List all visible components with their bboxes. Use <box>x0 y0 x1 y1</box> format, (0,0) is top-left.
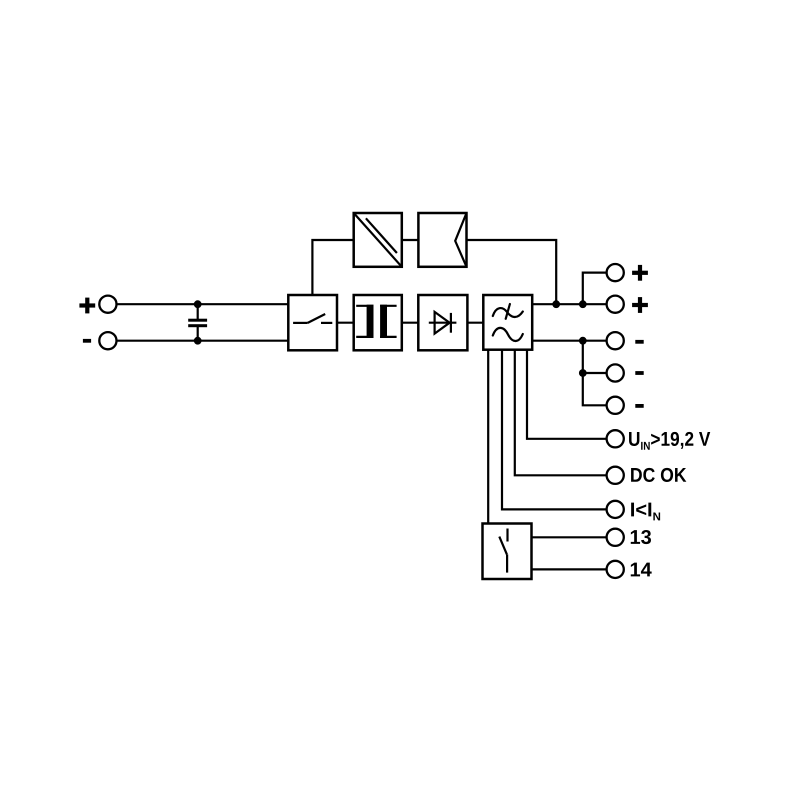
wire diode to regulator <box>467 322 483 324</box>
label + input <box>79 298 95 314</box>
label DC OK <box>631 468 686 482</box>
signal terminal 13 <box>607 529 624 546</box>
wire feed from box2 down to output + <box>467 240 557 304</box>
junction dot input + <box>194 300 202 308</box>
U2 chevron <box>455 214 466 267</box>
label +2 output <box>632 297 648 313</box>
wire input + <box>117 303 289 305</box>
wire relay contact 13 <box>532 536 607 538</box>
input switch box S1 <box>288 295 337 350</box>
wire input - <box>117 340 289 342</box>
transformer box T1 <box>354 295 402 350</box>
capacitor C1 <box>188 319 207 328</box>
label 13 <box>631 530 651 544</box>
U3 top sine with slash <box>493 304 523 319</box>
junction dot feed / output + <box>552 300 560 308</box>
label -2 output <box>635 371 643 375</box>
wire output -2 stub <box>583 372 607 374</box>
wire capacitor branch bottom <box>197 327 199 341</box>
signal terminal UIN <box>607 430 624 447</box>
label -3 output <box>635 404 643 408</box>
junction dot output -2 <box>579 369 587 377</box>
input terminal - <box>99 332 116 349</box>
limiter box U2 (chevron symbol) <box>418 213 466 267</box>
wire DC OK signal drop <box>515 350 607 476</box>
label UIN>19,2 V <box>629 432 710 450</box>
relay box K1 <box>483 524 532 580</box>
junction dot output + branch <box>579 300 587 308</box>
wire switch to transformer <box>337 322 354 324</box>
wire I&lt;IN signal drop <box>502 350 607 510</box>
diode box D1 <box>418 295 467 350</box>
wire box1 to box2 <box>402 239 419 241</box>
wire output - main <box>532 340 606 342</box>
output terminal -2 <box>607 364 624 381</box>
DC/DC converter box U1 (diagonal symbol) <box>354 213 402 267</box>
label I&lt;IN <box>631 503 660 521</box>
wire output + upper branch <box>583 273 607 305</box>
signal terminal DC OK <box>607 467 624 484</box>
wire transformer to diode <box>402 322 419 324</box>
label -1 output <box>635 340 643 344</box>
junction dot output - branch <box>579 337 587 345</box>
T1 winding lines <box>356 306 396 337</box>
junction dot input - <box>194 337 202 345</box>
U1 diagonal lines <box>354 213 402 267</box>
label +1 output <box>632 265 648 281</box>
signal terminal 14 <box>607 561 624 578</box>
T1 core bars <box>367 305 387 338</box>
output terminal +1 <box>607 264 624 281</box>
wire output - lower branch <box>583 341 607 406</box>
output terminal +2 <box>607 296 624 313</box>
wire output + main <box>532 303 606 305</box>
signal terminal I&lt;IN <box>607 501 624 518</box>
regulator/filter box U3 <box>483 295 532 350</box>
label 14 <box>631 563 652 577</box>
wire relay contact 14 <box>532 568 607 570</box>
label - input <box>83 339 91 343</box>
U3 bottom sine <box>493 328 523 341</box>
wire relay drop <box>487 350 489 524</box>
relay contact symbol <box>499 529 507 573</box>
output terminal -1 <box>607 332 624 349</box>
diode D1 symbol <box>429 312 457 334</box>
switch S1 symbol <box>293 314 332 323</box>
wire UIN signal drop <box>527 350 607 439</box>
input terminal + <box>99 296 116 313</box>
wire capacitor branch top <box>197 304 199 319</box>
output terminal -3 <box>607 397 624 414</box>
wire switch box top stub <box>312 240 353 295</box>
